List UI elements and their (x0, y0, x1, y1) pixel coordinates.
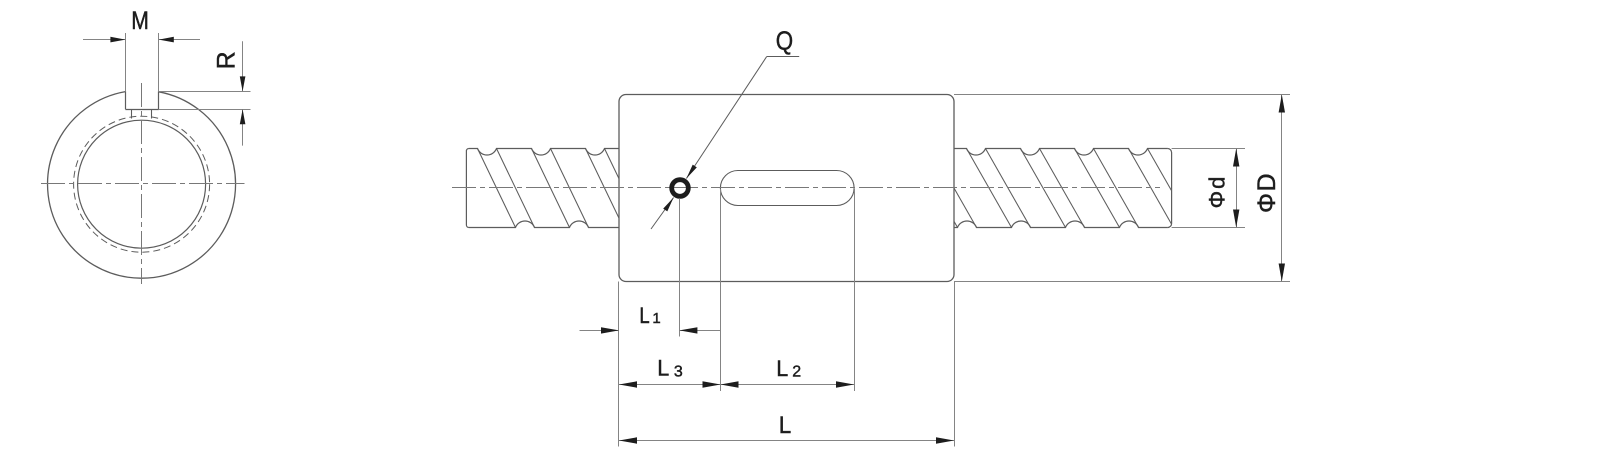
extension line hole Q center (679, 198, 681, 336)
Q leader arrows (663, 165, 697, 212)
extension line nut left edge (618, 282, 620, 447)
dimension Phi-d arrows (1233, 149, 1239, 228)
svg-text:2: 2 (792, 364, 801, 381)
dimension Phi-D arrows (1279, 95, 1285, 282)
nut OD extension lines (954, 95, 1290, 282)
nut bore inner circle (78, 120, 206, 248)
dimension L1 lines (580, 330, 721, 332)
ball track dashed circle (74, 116, 210, 252)
dimension L3 arrows (619, 381, 721, 387)
svg-text:ΦD: ΦD (1253, 172, 1281, 213)
left view horizontal centerline (41, 183, 245, 185)
ball nut body (619, 95, 954, 282)
dimension M arrows (110, 37, 173, 43)
svg-text:R: R (213, 51, 241, 69)
svg-text:Φd: Φd (1205, 175, 1230, 209)
dimension L3 line (619, 384, 721, 386)
shaft centerline (452, 187, 1160, 189)
nut slot obround (720, 171, 854, 206)
svg-text:Q: Q (776, 26, 793, 56)
svg-text:1: 1 (652, 310, 660, 327)
svg-text:L: L (639, 303, 649, 328)
keyway slot (125, 91, 158, 118)
dimension L line (619, 440, 954, 442)
keyway extension lines (126, 33, 159, 91)
nut body outer circle (48, 92, 236, 279)
svg-text:L: L (776, 356, 788, 381)
Q leader line (651, 57, 799, 230)
dimension L2 arrows (721, 381, 855, 387)
svg-text:3: 3 (674, 363, 683, 380)
dimension L arrows (619, 437, 954, 443)
screw shaft right threaded segment (948, 149, 1172, 228)
hole Q (672, 180, 689, 197)
dimension R line (242, 41, 244, 145)
dimension L1 arrows (601, 327, 697, 333)
dimension Phi-d line (1236, 149, 1238, 228)
dimension R arrows (240, 76, 246, 124)
dimension R extension lines (159, 92, 251, 110)
svg-text:L: L (657, 356, 669, 381)
dimension Phi-D line (1281, 95, 1283, 282)
slot extension lines (721, 189, 855, 391)
svg-text:L: L (779, 412, 792, 439)
left view vertical centerline (141, 83, 143, 284)
svg-text:M: M (131, 7, 149, 35)
dimension L2 line (721, 384, 855, 386)
screw shaft plain end lines (1172, 149, 1245, 228)
extension line nut right edge (954, 282, 956, 447)
dimension M lines (83, 39, 200, 41)
screw shaft left threaded segment (466, 149, 642, 228)
